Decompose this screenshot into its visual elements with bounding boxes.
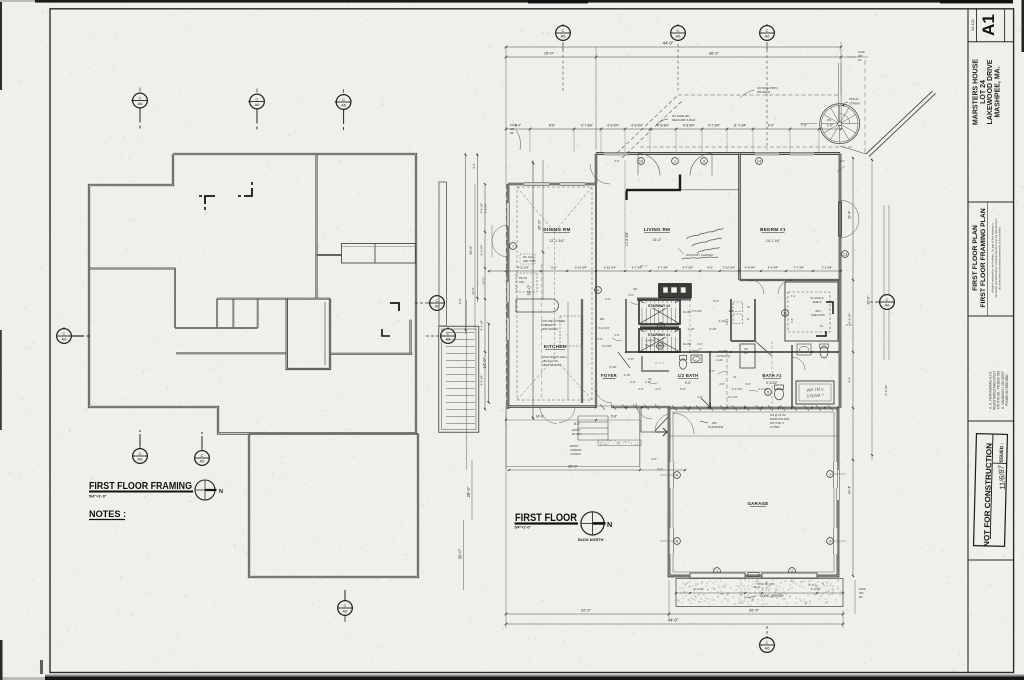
svg-text:W/WR PNL AND: W/WR PNL AND xyxy=(770,417,789,421)
svg-text:9: 9 xyxy=(597,288,599,292)
svg-text:12'-1 3/4": 12'-1 3/4" xyxy=(549,239,565,243)
svg-text:8'-9 3/4": 8'-9 3/4" xyxy=(484,203,488,214)
svg-text:4'-8 3/4": 4'-8 3/4" xyxy=(631,124,643,128)
svg-text:A6: A6 xyxy=(561,34,567,39)
svg-text:4'-0": 4'-0" xyxy=(719,382,725,386)
svg-text:16'-4": 16'-4" xyxy=(848,485,852,494)
svg-text:2'-1 3/4": 2'-1 3/4" xyxy=(822,266,833,270)
svg-text:4'-0": 4'-0" xyxy=(472,163,476,169)
svg-text:4'-4 1/2": 4'-4 1/2" xyxy=(758,387,768,391)
svg-text:4'-8 1/4": 4'-8 1/4" xyxy=(480,203,484,214)
svg-text:All rights reserved by the Arc: All rights reserved by the Architect. No… xyxy=(991,223,995,293)
svg-text:7: 7 xyxy=(512,244,514,248)
svg-text:4'-8 3/4": 4'-8 3/4" xyxy=(657,124,669,128)
svg-text:4'-10 3/4": 4'-10 3/4" xyxy=(604,266,616,270)
svg-text:2'-4 1/2": 2'-4 1/2" xyxy=(732,387,743,391)
svg-text:9'-6 1/4": 9'-6 1/4" xyxy=(480,245,484,256)
svg-text:4 LAB: 4 LAB xyxy=(716,359,723,362)
svg-text:2'-10 3/4": 2'-10 3/4" xyxy=(723,266,735,270)
svg-text:22'-0": 22'-0" xyxy=(581,608,592,613)
svg-text:2'-6": 2'-6" xyxy=(628,293,634,297)
svg-text:14 R/SR: 14 R/SR xyxy=(646,339,656,343)
svg-text:2'-10": 2'-10" xyxy=(709,327,716,331)
svg-text:5: 5 xyxy=(767,390,769,394)
svg-text:A6: A6 xyxy=(765,34,771,39)
svg-text:C: C xyxy=(256,96,259,101)
svg-text:ABV TUB: ABV TUB xyxy=(523,259,535,263)
svg-text:MASONRY CHIMNEY: MASONRY CHIMNEY xyxy=(686,253,714,257)
svg-text:10'-8 3/4": 10'-8 3/4" xyxy=(625,231,629,246)
svg-text:4'-4 3/4": 4'-4 3/4" xyxy=(768,266,779,270)
svg-text:MARSTERS HOUSE: MARSTERS HOUSE xyxy=(973,59,980,125)
svg-text:4'-6": 4'-6" xyxy=(697,342,702,346)
svg-text:1'-0": 1'-0" xyxy=(839,159,844,163)
svg-text:DINING RM: DINING RM xyxy=(543,227,570,232)
svg-text:4'-0": 4'-0" xyxy=(651,457,657,461)
svg-text:GYPSM: GYPSM xyxy=(770,425,779,429)
svg-text:DL: DL xyxy=(820,324,824,328)
svg-text:20: 20 xyxy=(659,324,663,328)
svg-text:A6: A6 xyxy=(885,303,891,308)
svg-text:5x6 @ 16 OC: 5x6 @ 16 OC xyxy=(770,413,786,417)
svg-text:2'-10": 2'-10" xyxy=(609,365,616,369)
svg-text:C: C xyxy=(766,28,769,33)
svg-text:CABINETRY: CABINETRY xyxy=(541,323,557,327)
svg-text:2'-6": 2'-6" xyxy=(628,357,634,361)
svg-text:A6: A6 xyxy=(446,337,452,342)
svg-text:16'-4": 16'-4" xyxy=(848,210,852,219)
svg-text:4'-0": 4'-0" xyxy=(745,382,751,386)
svg-text:25'-0": 25'-0" xyxy=(568,465,578,469)
svg-text:1'-10": 1'-10" xyxy=(688,327,695,331)
svg-text:2'-6": 2'-6" xyxy=(597,337,602,341)
svg-text:11'-7 3/4": 11'-7 3/4" xyxy=(733,124,746,128)
svg-text:2'-0": 2'-0" xyxy=(630,380,636,384)
svg-text:9'-0": 9'-0" xyxy=(458,298,462,304)
svg-text:6'-0 3/4": 6'-0 3/4" xyxy=(811,587,822,591)
svg-text:FACE: FACE xyxy=(858,50,865,54)
svg-text:ABV: ABV xyxy=(519,280,524,284)
svg-text:FOYER: FOYER xyxy=(601,373,617,378)
svg-text:15'-4": 15'-4" xyxy=(653,238,662,242)
svg-text:C: C xyxy=(766,640,769,645)
svg-text:STAIRWAY #2: STAIRWAY #2 xyxy=(648,304,670,308)
svg-text:9'-0": 9'-0" xyxy=(768,124,774,128)
svg-text:1'-0": 1'-0" xyxy=(827,124,833,128)
svg-text:APPLIANCES: APPLIANCES xyxy=(541,327,558,331)
svg-text:A6: A6 xyxy=(343,609,349,614)
svg-text:DN: DN xyxy=(827,118,831,122)
svg-text:2'-10": 2'-10" xyxy=(624,373,631,377)
svg-text:5'-7 3/4": 5'-7 3/4" xyxy=(581,124,593,128)
svg-text:STRWAY: STRWAY xyxy=(849,102,861,106)
svg-text:3'-0": 3'-0" xyxy=(709,369,714,373)
svg-text:4'-7 3/4": 4'-7 3/4" xyxy=(658,266,669,270)
svg-text:10'-0": 10'-0" xyxy=(482,357,487,368)
svg-text:5'-0": 5'-0" xyxy=(685,381,691,385)
svg-text:N: N xyxy=(607,520,612,529)
svg-text:4'-5": 4'-5" xyxy=(707,266,713,270)
svg-text:44'-0": 44'-0" xyxy=(663,41,674,46)
svg-text:LIVING RM: LIVING RM xyxy=(644,227,670,232)
svg-text:GARAGE: GARAGE xyxy=(747,501,768,506)
svg-text:8'-4": 8'-4" xyxy=(574,422,580,426)
svg-text:4'-0": 4'-0" xyxy=(790,318,794,323)
svg-text:FIRST FLOOR: FIRST FLOOR xyxy=(515,512,577,524)
svg-text:N: N xyxy=(219,489,223,495)
svg-text:FR: FR xyxy=(859,595,863,599)
svg-text:FIRST FLOOR PLAN: FIRST FLOOR PLAN xyxy=(972,225,979,291)
svg-text:7'-7 3/4": 7'-7 3/4" xyxy=(794,266,805,270)
svg-text:WA: WA xyxy=(729,309,734,313)
svg-text:9'-6 1/4": 9'-6 1/4" xyxy=(480,320,484,331)
svg-text:the design and information com: the design and information communicated … xyxy=(994,218,998,298)
svg-text:14: 14 xyxy=(757,159,761,163)
svg-text:10: 10 xyxy=(639,159,643,163)
svg-text:44'-0": 44'-0" xyxy=(668,618,679,623)
svg-text:36'-0": 36'-0" xyxy=(537,219,542,230)
svg-text:FACE: FACE xyxy=(859,587,866,591)
svg-text:7'-0": 7'-0" xyxy=(801,124,807,128)
svg-text:C: C xyxy=(677,28,680,33)
svg-text:36'-0": 36'-0" xyxy=(709,51,720,56)
svg-text:LANDING: LANDING xyxy=(570,448,582,452)
svg-text:11: 11 xyxy=(783,311,787,315)
svg-text:FR: FR xyxy=(510,131,514,135)
svg-text:DN: DN xyxy=(600,317,604,321)
svg-text:FACE SOFFIT WALL: FACE SOFFIT WALL xyxy=(542,355,568,359)
svg-text:4'-7 3/4": 4'-7 3/4" xyxy=(708,124,720,128)
svg-text:any form without the written p: any form without the written permission … xyxy=(997,226,1001,290)
svg-text:30'-0": 30'-0" xyxy=(867,295,871,305)
svg-text:C: C xyxy=(139,451,142,456)
svg-text:4 STEPS: 4 STEPS xyxy=(570,452,581,456)
svg-text:4'-11 3/4": 4'-11 3/4" xyxy=(517,266,529,270)
svg-text:4'-8 3/4": 4'-8 3/4" xyxy=(607,124,619,128)
svg-text:6'-0": 6'-0" xyxy=(713,299,719,303)
svg-text:CONC APRON: CONC APRON xyxy=(760,594,783,598)
svg-text:A1: A1 xyxy=(979,14,998,36)
svg-text:MASHPEE, MA.: MASHPEE, MA. xyxy=(994,66,1001,117)
svg-text:9'-5 3/4": 9'-5 3/4" xyxy=(884,385,888,396)
svg-text:OL: OL xyxy=(733,375,737,379)
svg-text:5'-10 3/4": 5'-10 3/4" xyxy=(598,326,609,330)
svg-text:15: 15 xyxy=(658,344,662,348)
svg-text:C: C xyxy=(344,603,347,608)
svg-text:A6: A6 xyxy=(676,34,682,39)
svg-text:UP: UP xyxy=(633,287,637,291)
svg-text:OUTLINE KITCHEN: OUTLINE KITCHEN xyxy=(541,319,565,323)
svg-text:ENTRY: ENTRY xyxy=(570,444,579,448)
svg-text:30'-0": 30'-0" xyxy=(458,548,463,559)
svg-text:A6: A6 xyxy=(138,457,144,462)
svg-text:2'-10": 2'-10" xyxy=(719,319,726,323)
svg-text:SHELF: SHELF xyxy=(812,300,821,304)
svg-text:1: 1 xyxy=(829,472,831,476)
svg-text:STAIRWAY #1: STAIRWAY #1 xyxy=(648,333,670,337)
svg-text:A6: A6 xyxy=(200,459,206,464)
svg-text:3: 3 xyxy=(676,539,678,543)
svg-text:6'-8 3/4": 6'-8 3/4" xyxy=(683,124,695,128)
svg-text:SHELVING: SHELVING xyxy=(811,313,825,317)
svg-text:TR=10 / LANDING: TR=10 / LANDING xyxy=(645,345,666,348)
svg-text:LDY: LDY xyxy=(725,318,729,325)
svg-text:C: C xyxy=(447,331,450,336)
svg-text:6'-0 3/4": 6'-0 3/4" xyxy=(694,587,705,591)
svg-text:26'-0": 26'-0" xyxy=(749,608,760,613)
svg-text:4'-4 3/4": 4'-4 3/4" xyxy=(745,266,756,270)
svg-text:8: 8 xyxy=(703,159,705,163)
svg-text:4'-0": 4'-0" xyxy=(697,395,702,399)
svg-text:4'-6": 4'-6" xyxy=(614,159,619,163)
svg-text:FIRST FLOOR FRAMING PLAN: FIRST FLOOR FRAMING PLAN xyxy=(980,208,987,307)
svg-text:CL.: CL. xyxy=(744,351,748,355)
svg-text:8'-6": 8'-6" xyxy=(549,124,555,128)
svg-text:C: C xyxy=(201,453,204,458)
svg-text:ABV EL+7'0": ABV EL+7'0" xyxy=(542,359,557,363)
svg-text:PPD AL: PPD AL xyxy=(849,97,859,101)
svg-text:ENTRY: ENTRY xyxy=(572,428,581,432)
svg-text:5'-10 3/4": 5'-10 3/4" xyxy=(575,266,587,270)
svg-text:A6: A6 xyxy=(765,646,771,651)
svg-text:C: C xyxy=(63,331,66,336)
svg-text:A6: A6 xyxy=(341,103,347,108)
svg-text:5'-6": 5'-6" xyxy=(611,415,617,419)
svg-text:CLOSING @: CLOSING @ xyxy=(716,355,730,358)
svg-text:16'-0": 16'-0" xyxy=(753,585,760,589)
svg-text:A6: A6 xyxy=(138,101,144,106)
svg-text:4: 4 xyxy=(676,473,678,477)
svg-text:2: 2 xyxy=(829,539,831,543)
svg-text:C: C xyxy=(342,97,345,102)
svg-text:2'-0": 2'-0" xyxy=(638,387,643,391)
svg-text:FIRST FLOOR FRAMING: FIRST FLOOR FRAMING xyxy=(89,481,192,492)
svg-text:4'-8 1/4": 4'-8 1/4" xyxy=(480,375,484,386)
svg-text:1: 1 xyxy=(674,159,676,163)
svg-text:LOT 24: LOT 24 xyxy=(980,80,987,104)
svg-text:2'-4 1/2": 2'-4 1/2" xyxy=(728,395,738,399)
svg-text:WD: WD xyxy=(859,591,863,595)
svg-text:4'-6": 4'-6" xyxy=(848,377,852,383)
svg-text:56'-0": 56'-0" xyxy=(527,284,532,295)
svg-text:C: C xyxy=(436,298,439,303)
svg-text:2'-0": 2'-0" xyxy=(645,380,651,384)
svg-text:PHONE 617/888-0869: PHONE 617/888-0869 xyxy=(1005,374,1009,406)
svg-text:A6: A6 xyxy=(255,102,261,107)
svg-text:4'-0": 4'-0" xyxy=(657,467,663,471)
svg-text:LAKEWOOD DRIVE: LAKEWOOD DRIVE xyxy=(987,59,994,124)
svg-text:4'-7 3/4": 4'-7 3/4" xyxy=(632,266,643,270)
svg-text:6'-5 3/4": 6'-5 3/4" xyxy=(692,309,702,313)
svg-text:NOTES :: NOTES : xyxy=(89,509,126,519)
svg-text:5'-6": 5'-6" xyxy=(551,266,557,270)
svg-text:A6: A6 xyxy=(62,337,68,342)
svg-text:FACE: FACE xyxy=(510,123,517,127)
svg-text:PLATFORM: PLATFORM xyxy=(708,425,724,429)
svg-text:C: C xyxy=(562,28,565,33)
svg-text:30'-0": 30'-0" xyxy=(469,245,473,255)
svg-text:CL RM: CL RM xyxy=(719,349,728,353)
svg-text:W: W xyxy=(747,305,750,309)
svg-text:RE SN: RE SN xyxy=(519,276,527,280)
svg-text:2'-0": 2'-0" xyxy=(655,387,660,391)
svg-text:13: 13 xyxy=(843,252,847,256)
svg-text:5/4"=1'-0": 5/4"=1'-0" xyxy=(89,495,107,499)
svg-text:BEDRM #1: BEDRM #1 xyxy=(760,227,786,232)
svg-text:5'-0 3/4": 5'-0 3/4" xyxy=(602,344,612,348)
svg-text:ABV TUB BATH: ABV TUB BATH xyxy=(542,363,561,367)
svg-text:6'-0": 6'-0" xyxy=(605,297,610,301)
svg-text:11/6/87: 11/6/87 xyxy=(997,464,1008,490)
svg-text:14'-1 1/4": 14'-1 1/4" xyxy=(766,239,781,243)
svg-text:15'-0": 15'-0" xyxy=(544,51,555,56)
svg-text:C: C xyxy=(139,95,142,100)
svg-text:28'-0": 28'-0" xyxy=(466,486,471,497)
svg-text:32'-0": 32'-0" xyxy=(471,287,475,295)
svg-text:84-122: 84-122 xyxy=(971,19,975,30)
svg-text:5'-0": 5'-0" xyxy=(680,387,686,391)
svg-text:WD: WD xyxy=(858,54,862,58)
svg-text:WD: WD xyxy=(510,127,514,131)
svg-text:C: C xyxy=(886,297,889,302)
svg-text:5/8 TYPE 'X': 5/8 TYPE 'X' xyxy=(770,421,785,425)
svg-text:1'-2: 1'-2 xyxy=(791,294,796,298)
svg-text:KITCHEN: KITCHEN xyxy=(544,344,567,349)
svg-text:1'-6": 1'-6" xyxy=(614,333,619,337)
svg-text:ISSUED :: ISSUED : xyxy=(999,442,1006,463)
svg-text:LIN: LIN xyxy=(744,347,748,351)
svg-text:BLDG NORTH: BLDG NORTH xyxy=(578,538,604,542)
svg-text:9'-5 3/4": 9'-5 3/4" xyxy=(848,313,852,324)
svg-text:1/2 BATH: 1/2 BATH xyxy=(678,373,699,378)
svg-text:WD DECK: WD DECK xyxy=(757,90,770,94)
svg-text:14'-9": 14'-9" xyxy=(536,415,545,419)
svg-text:4'-7 3/4": 4'-7 3/4" xyxy=(683,266,694,270)
svg-text:DECK ABV & BLW: DECK ABV & BLW xyxy=(672,118,696,122)
svg-text:FR: FR xyxy=(858,58,862,62)
svg-text:5/4"=1'-0": 5/4"=1'-0" xyxy=(515,526,532,530)
